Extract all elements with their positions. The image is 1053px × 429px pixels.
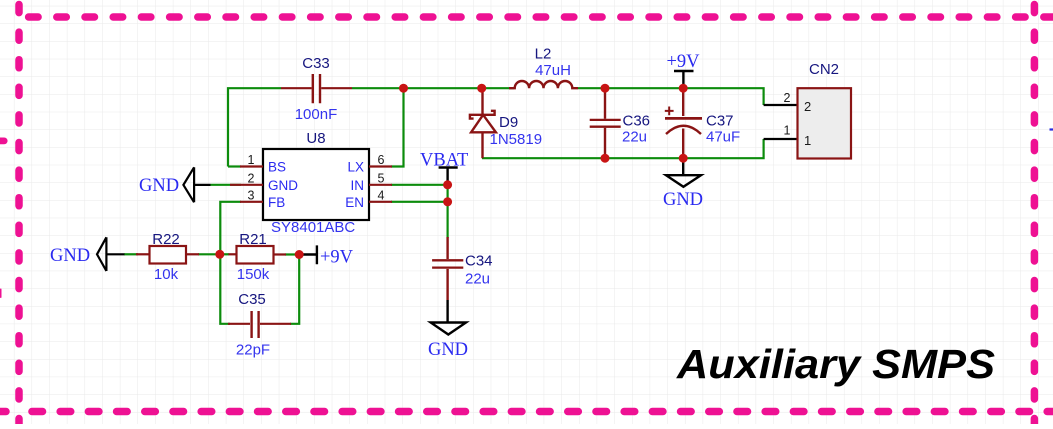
- connector CN2 pin 2 stub: [764, 104, 798, 106]
- op-amp U8 box: [263, 149, 369, 220]
- svg-text:GND: GND: [139, 176, 179, 196]
- capacitor C34 top lead: [446, 237, 448, 259]
- svg-text:47uF: 47uF: [706, 128, 740, 145]
- capacitor C33 plates: [313, 74, 320, 103]
- junction node +9V top rail: [679, 84, 688, 93]
- svg-text:CN2: CN2: [809, 61, 839, 78]
- svg-text:GND: GND: [428, 340, 468, 360]
- svg-text:GND: GND: [663, 190, 703, 210]
- capacitor C37 top lead: [682, 88, 684, 116]
- U8 pin 4 EN lead: [369, 201, 392, 203]
- svg-text:FB: FB: [268, 195, 285, 210]
- junction node C37 bottom rail: [679, 154, 688, 163]
- svg-text:BS: BS: [268, 160, 286, 175]
- svg-text:47uH: 47uH: [535, 62, 571, 79]
- capacitor C35 left lead: [228, 323, 250, 325]
- ground symbol under C34 stem: [446, 300, 448, 323]
- svg-text:L2: L2: [535, 46, 552, 63]
- wire R22 right to FB node: [198, 253, 220, 255]
- ground symbol under C34 triangle: [431, 323, 466, 335]
- svg-text:C36: C36: [623, 112, 651, 129]
- wire bottom rail D9 to C36: [482, 157, 605, 159]
- svg-text:22u: 22u: [622, 128, 647, 145]
- svg-text:22pF: 22pF: [236, 342, 270, 359]
- adjacent sheet blue fragment right edge: [1050, 128, 1053, 130]
- wire FB node down to C35 left: [220, 254, 230, 323]
- wire bottom rail C36 to C37 to CN2 corner: [605, 139, 764, 158]
- junction node C36 top rail: [601, 84, 610, 93]
- svg-text:EN: EN: [345, 195, 364, 210]
- svg-text:2: 2: [784, 91, 791, 105]
- svg-text:1N5819: 1N5819: [490, 131, 543, 148]
- capacitor C36 plates: [590, 120, 621, 127]
- svg-text:GND: GND: [50, 246, 90, 266]
- svg-text:C35: C35: [238, 291, 266, 308]
- svg-text:C34: C34: [465, 253, 493, 270]
- wire R22 to GND arrow green segment: [124, 253, 138, 255]
- wire top rail LX node to D9 node: [404, 87, 482, 89]
- wire top rail C33 to LX node: [352, 87, 404, 89]
- svg-text:1: 1: [248, 153, 255, 167]
- capacitor C36 top lead: [604, 88, 606, 119]
- resistor R22 left lead: [136, 253, 150, 255]
- junction node D9 top rail: [477, 84, 486, 93]
- svg-text:3: 3: [248, 188, 255, 202]
- power +9V right bar: [301, 245, 317, 264]
- inductor L2: [509, 81, 578, 88]
- wire top rail C36 node to +9V node to CN2 corner: [605, 88, 764, 105]
- svg-text:1: 1: [804, 133, 811, 148]
- capacitor C35 right lead: [260, 323, 291, 325]
- ground arrow at R22: [97, 237, 125, 271]
- junction node C36 bottom rail: [601, 154, 610, 163]
- sheet border bottom: [0, 408, 1053, 416]
- wire R21 right to +9V node: [285, 253, 299, 255]
- svg-text:R22: R22: [152, 231, 180, 248]
- capacitor C37 top plate: [665, 117, 702, 120]
- resistor R21 left lead: [229, 253, 237, 255]
- junction node VBAT IN: [443, 180, 452, 189]
- svg-text:Auxiliary SMPS: Auxiliary SMPS: [676, 341, 995, 387]
- svg-text:IN: IN: [351, 178, 365, 193]
- svg-text:U8: U8: [306, 130, 325, 147]
- junction node FB divider: [215, 250, 224, 259]
- svg-text:4: 4: [378, 188, 385, 202]
- wire BS pin: [228, 165, 241, 167]
- wire C35 right up to R21 node: [290, 255, 299, 324]
- capacitor C37 curved bottom plate: [666, 126, 701, 134]
- sheet border right: [1031, 0, 1039, 424]
- diode D9 triangle: [471, 115, 496, 133]
- capacitor C33 leads: [281, 87, 352, 89]
- net label VBAT bar: [439, 168, 458, 185]
- wire top rail D9 node to L2: [482, 87, 514, 89]
- svg-text:GND: GND: [268, 178, 298, 193]
- connector CN2 pin 1 stub: [764, 138, 798, 140]
- svg-text:LX: LX: [347, 160, 364, 175]
- ground symbol under C37 triangle: [666, 175, 701, 187]
- svg-text:+9V: +9V: [320, 248, 354, 268]
- svg-text:100nF: 100nF: [295, 106, 338, 123]
- junction node R21 +9V: [295, 250, 304, 259]
- capacitor C34 bottom lead: [446, 269, 448, 300]
- svg-text:1: 1: [784, 124, 791, 138]
- wire IN pin to VBAT node: [391, 184, 448, 186]
- wire FB pin down to divider node: [220, 202, 241, 255]
- capacitor C37 plus sign: [665, 107, 674, 116]
- svg-text:10k: 10k: [154, 266, 179, 283]
- ground arrow at U8 pin 2: [183, 167, 210, 202]
- U8 pin 6 LX lead: [369, 165, 392, 167]
- svg-text:D9: D9: [499, 114, 518, 131]
- capacitor C36 bottom lead: [604, 128, 606, 158]
- svg-text:VBAT: VBAT: [420, 151, 468, 171]
- svg-text:R21: R21: [239, 231, 267, 248]
- svg-text:C37: C37: [706, 112, 734, 129]
- U8 pin 5 IN lead: [369, 184, 392, 186]
- svg-text:+9V: +9V: [666, 52, 700, 72]
- wire EN pin to VBAT node: [391, 201, 448, 203]
- U8 pin 1 BS lead: [240, 165, 263, 167]
- svg-text:2: 2: [248, 171, 255, 185]
- power +9V top bar: [674, 71, 694, 88]
- capacitor C35 plates: [252, 311, 259, 338]
- sheet border top: [29, 13, 1053, 21]
- svg-text:22u: 22u: [465, 271, 490, 288]
- wire LX vertical: [391, 88, 404, 166]
- svg-text:SY8401ABC: SY8401ABC: [271, 219, 355, 236]
- junction node VBAT EN: [443, 197, 452, 206]
- adjacent sheet border fragment left edge horizontal: [0, 137, 4, 144]
- svg-text:150k: 150k: [237, 266, 270, 283]
- wire GND pin green segment: [211, 184, 242, 186]
- U8 pin 3 FB lead: [240, 201, 263, 203]
- svg-text:2: 2: [804, 99, 811, 114]
- adjacent sheet border fragment left edge sliver: [0, 289, 2, 299]
- svg-text:5: 5: [378, 171, 385, 185]
- sheet border left: [15, 0, 23, 424]
- resistor R22 right lead: [186, 253, 199, 255]
- wire top rail L2 to C36 node: [578, 87, 605, 89]
- capacitor C37 bottom lead: [682, 129, 684, 159]
- svg-text:C33: C33: [302, 55, 330, 72]
- wire FB node to R21 left: [220, 253, 229, 255]
- resistor R22 body: [150, 246, 187, 264]
- capacitor C34 plates: [432, 260, 463, 267]
- resistor R21 body: [237, 246, 274, 264]
- svg-text:6: 6: [378, 153, 385, 167]
- U8 pin 2 GND lead: [230, 184, 263, 186]
- wire VBAT vertical between nodes and down to C34: [447, 185, 449, 238]
- connector CN2 box: [798, 88, 852, 158]
- diode D9 stem bottom: [481, 132, 483, 158]
- junction node LX top rail: [399, 84, 408, 93]
- wire top rail left segment to C33: [228, 88, 281, 166]
- diode D9 stem top: [481, 88, 483, 115]
- ground symbol under C37 stem: [682, 158, 684, 175]
- resistor R21 right lead: [274, 253, 287, 255]
- diode D9 schottky cathode bar: [470, 111, 495, 119]
